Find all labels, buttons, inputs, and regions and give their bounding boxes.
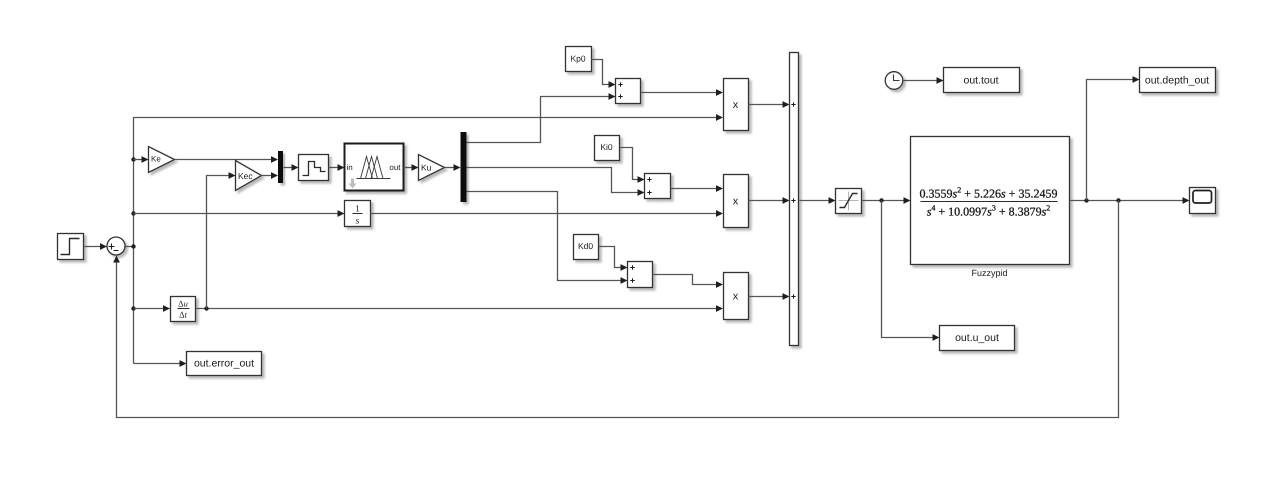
wire error to integrator	[134, 210, 345, 217]
product block P3	[724, 273, 749, 320]
wire error to derivative	[134, 305, 171, 312]
svg-text:Kp0: Kp0	[570, 54, 585, 64]
saturation block	[836, 189, 862, 214]
wire Ki0 to sum2	[620, 148, 645, 183]
sum block S3	[628, 262, 653, 288]
wire to out.depth_out	[1087, 76, 1140, 200]
fuzzy logic controller block	[345, 144, 404, 191]
wire saturation to plant	[862, 197, 911, 204]
product block P2	[724, 175, 749, 228]
wire sum bar to saturation	[800, 197, 836, 204]
svg-text:out: out	[389, 163, 401, 172]
node error to Ke junction	[131, 157, 135, 161]
sum block S2	[645, 174, 671, 199]
wire Kp0 to sum1	[592, 60, 616, 88]
node depth junction	[1084, 198, 1088, 202]
wire mux to quantizer	[284, 164, 299, 171]
scope block	[1190, 188, 1216, 214]
demux bar	[461, 132, 467, 202]
sum bar block	[790, 53, 799, 346]
sum junction circle	[107, 237, 125, 255]
to-workspace out.tout	[944, 68, 1020, 93]
wire quantizer to fuzzy controller	[329, 164, 345, 171]
wire error to Ke	[134, 156, 149, 163]
wire demux out3 to sum Kd	[467, 192, 628, 284]
wire integrator to product2	[371, 210, 724, 217]
wire plant to scope	[1070, 197, 1190, 204]
wire error bus vertical	[134, 114, 724, 363]
svg-text:Δu: Δu	[178, 299, 188, 309]
wire demux out2 to sum Ki	[467, 168, 645, 196]
svg-text:in: in	[347, 163, 353, 172]
wire clock to out.tout	[904, 77, 944, 84]
product block P1	[724, 79, 749, 131]
wire step to sum circle	[85, 243, 108, 250]
wire derivative to product3	[196, 305, 724, 312]
node derivative out junction	[204, 306, 208, 310]
wire sum2 to product2	[671, 185, 724, 192]
node error main junction	[131, 244, 135, 248]
wire derivative to Kec	[207, 172, 236, 308]
svg-text:Δt: Δt	[179, 310, 187, 320]
svg-text:out.error_out: out.error_out	[194, 358, 254, 370]
quantizer block	[299, 155, 329, 181]
wire sum circle to error node	[126, 246, 134, 248]
svg-text:Kec: Kec	[238, 171, 253, 181]
svg-text:Ki0: Ki0	[600, 142, 613, 152]
svg-text:s4 + 10.0997s3 + 8.3879s2: s4 + 10.0997s3 + 8.3879s2	[927, 204, 1051, 219]
gain Ku	[419, 155, 445, 181]
sum block S1	[616, 79, 641, 104]
wire sum1 to product1	[641, 89, 724, 96]
wire Kec to mux	[262, 172, 279, 179]
gain Kec	[236, 161, 262, 191]
svg-text:Ke: Ke	[151, 155, 161, 164]
svg-text:out.depth_out: out.depth_out	[1145, 75, 1209, 87]
svg-text:out.u_out: out.u_out	[955, 332, 999, 344]
wire feedback loop	[113, 201, 1118, 418]
transfer function plant Fuzzypid	[911, 137, 1070, 279]
integrator block 1/s	[345, 201, 371, 227]
wire demux out1 to sum Kp	[467, 93, 616, 142]
svg-text:x: x	[733, 99, 739, 111]
step source block	[58, 234, 84, 260]
wire Ke to mux	[175, 156, 279, 163]
to-workspace out.u_out	[940, 326, 1015, 351]
svg-text:0.3559s2 + 5.226s + 35.2459: 0.3559s2 + 5.226s + 35.2459	[920, 186, 1058, 201]
wire Kd0 to sum3	[599, 247, 628, 271]
node error to derivative junction	[131, 306, 135, 310]
wire u to out.u_out	[882, 201, 940, 341]
node error to integrator junction	[131, 211, 135, 215]
svg-text:x: x	[733, 291, 739, 303]
gain Ke	[149, 147, 175, 173]
to-workspace out.depth_out	[1140, 68, 1216, 93]
constant Ki0	[595, 136, 620, 161]
wire error to out.error_out	[134, 360, 187, 367]
svg-text:s: s	[356, 217, 360, 227]
svg-text:Fuzzypid: Fuzzypid	[971, 268, 1007, 278]
wire fuzzy controller to Ku	[404, 164, 419, 171]
node feedback junction	[1116, 198, 1120, 202]
derivative block du/dt	[171, 297, 196, 322]
svg-text:out.tout: out.tout	[963, 75, 998, 87]
wire product3 to sum bar	[749, 293, 790, 300]
node u junction	[879, 198, 883, 202]
to-workspace out.error_out	[187, 352, 262, 376]
clock	[885, 72, 903, 90]
constant Kp0	[566, 47, 592, 72]
wire product2 to sum bar	[749, 197, 790, 204]
svg-text:Ku: Ku	[421, 163, 432, 173]
constant Kd0	[574, 235, 599, 260]
mux bar	[278, 151, 283, 183]
wire product1 to sum bar	[749, 101, 790, 108]
wire sum3 to product3	[653, 275, 724, 288]
svg-text:Kd0: Kd0	[578, 241, 593, 251]
wire Ku to demux	[445, 164, 461, 171]
svg-text:x: x	[733, 196, 739, 208]
